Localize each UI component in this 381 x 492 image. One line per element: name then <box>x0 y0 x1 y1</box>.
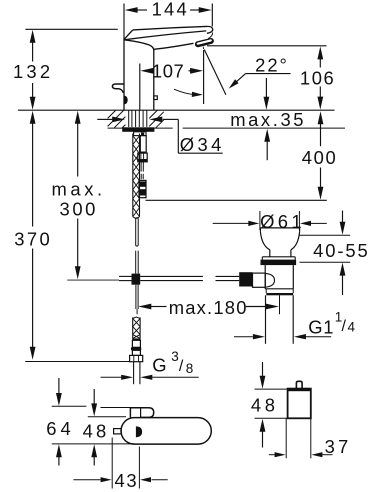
svg-text:64: 64 <box>46 418 74 439</box>
svg-text:48: 48 <box>251 394 279 415</box>
svg-text:132: 132 <box>13 61 53 82</box>
svg-text:144: 144 <box>152 0 189 19</box>
svg-text:22°: 22° <box>255 54 289 75</box>
svg-text:/: / <box>342 318 347 335</box>
svg-text:107: 107 <box>152 60 184 81</box>
svg-text:37: 37 <box>325 436 352 457</box>
svg-text:/: / <box>179 358 184 375</box>
svg-text:48: 48 <box>83 420 110 441</box>
svg-text:40-55: 40-55 <box>313 240 370 261</box>
svg-text:max.: max. <box>52 179 106 200</box>
svg-text:max.180: max.180 <box>169 297 248 318</box>
svg-text:370: 370 <box>14 229 52 250</box>
svg-text:4: 4 <box>348 320 356 335</box>
svg-text:G: G <box>152 355 166 376</box>
svg-text:400: 400 <box>302 147 337 168</box>
svg-text:8: 8 <box>186 361 194 376</box>
svg-text:300: 300 <box>60 199 98 220</box>
svg-text:max.35: max.35 <box>230 109 306 130</box>
svg-text:Ø61: Ø61 <box>260 211 305 232</box>
svg-text:106: 106 <box>300 67 335 88</box>
svg-text:43: 43 <box>115 470 139 491</box>
svg-text:G1: G1 <box>308 317 334 338</box>
svg-text:3: 3 <box>171 349 179 364</box>
svg-text:Ø34: Ø34 <box>180 134 225 155</box>
